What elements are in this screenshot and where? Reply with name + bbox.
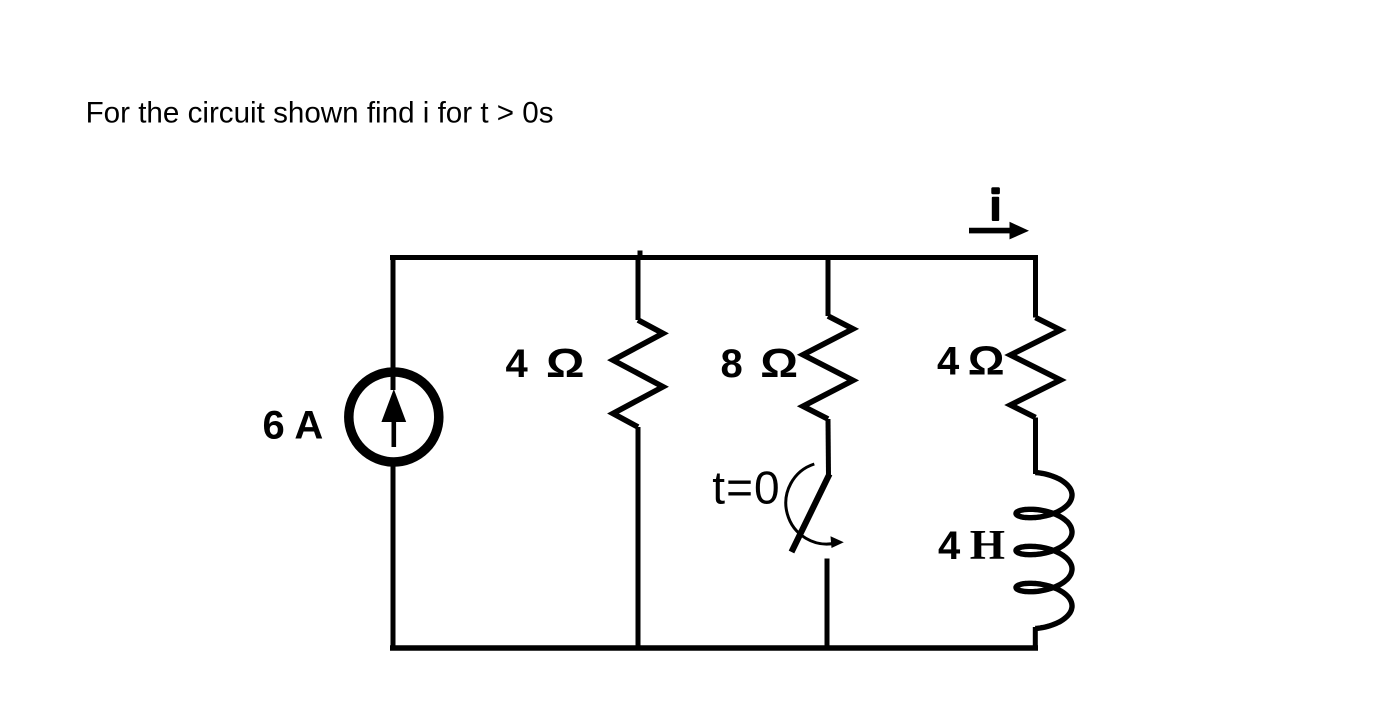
svg-text:Ω: Ω <box>760 341 798 386</box>
svg-text:H: H <box>970 522 1005 568</box>
wire left branch upper <box>391 255 396 390</box>
wire top <box>390 255 1038 260</box>
svg-text:4: 4 <box>938 524 961 568</box>
svg-text:For the circuit shown find i f: For the circuit shown find i for t > 0s <box>86 96 554 129</box>
current source I1 arrow head <box>381 389 406 422</box>
switch SW1 arc arrowhead <box>831 536 844 548</box>
wire branch3 middle (above switch) <box>826 419 832 476</box>
resistor R2 8ohm zigzag <box>803 316 853 419</box>
junction overshoot node at 4ohm branch top <box>638 251 643 259</box>
svg-text:8: 8 <box>721 342 743 386</box>
svg-text:Ω: Ω <box>546 341 584 386</box>
current source I1 circle <box>349 372 439 462</box>
wire branch2 upper <box>636 255 641 320</box>
wire bottom <box>390 645 1038 651</box>
svg-text:Ω: Ω <box>968 339 1005 384</box>
svg-text:4: 4 <box>937 340 960 384</box>
switch SW1 actuation arc <box>786 464 836 544</box>
wire left branch lower <box>391 462 396 650</box>
wire branch3 upper <box>826 255 831 316</box>
svg-text:4: 4 <box>506 342 529 386</box>
wire branch4 upper <box>1033 255 1038 318</box>
wire branch4 bottom stub <box>1033 627 1038 650</box>
wire branch3 lower stub <box>825 559 830 651</box>
current label i <box>991 187 1000 194</box>
svg-text:t=0: t=0 <box>712 462 780 514</box>
current direction arrow <box>969 228 1012 234</box>
wire branch4 between resistor and inductor <box>1033 418 1038 475</box>
wire branch2 lower <box>636 427 641 650</box>
current source I1 arrow stem <box>391 420 396 447</box>
resistor R1 4ohm zigzag <box>613 320 663 427</box>
switch SW1 blade <box>792 474 830 552</box>
inductor L1 coil <box>1016 473 1072 629</box>
resistor R3 4ohm zigzag <box>1011 318 1061 418</box>
svg-text:6 A: 6 A <box>263 404 324 448</box>
